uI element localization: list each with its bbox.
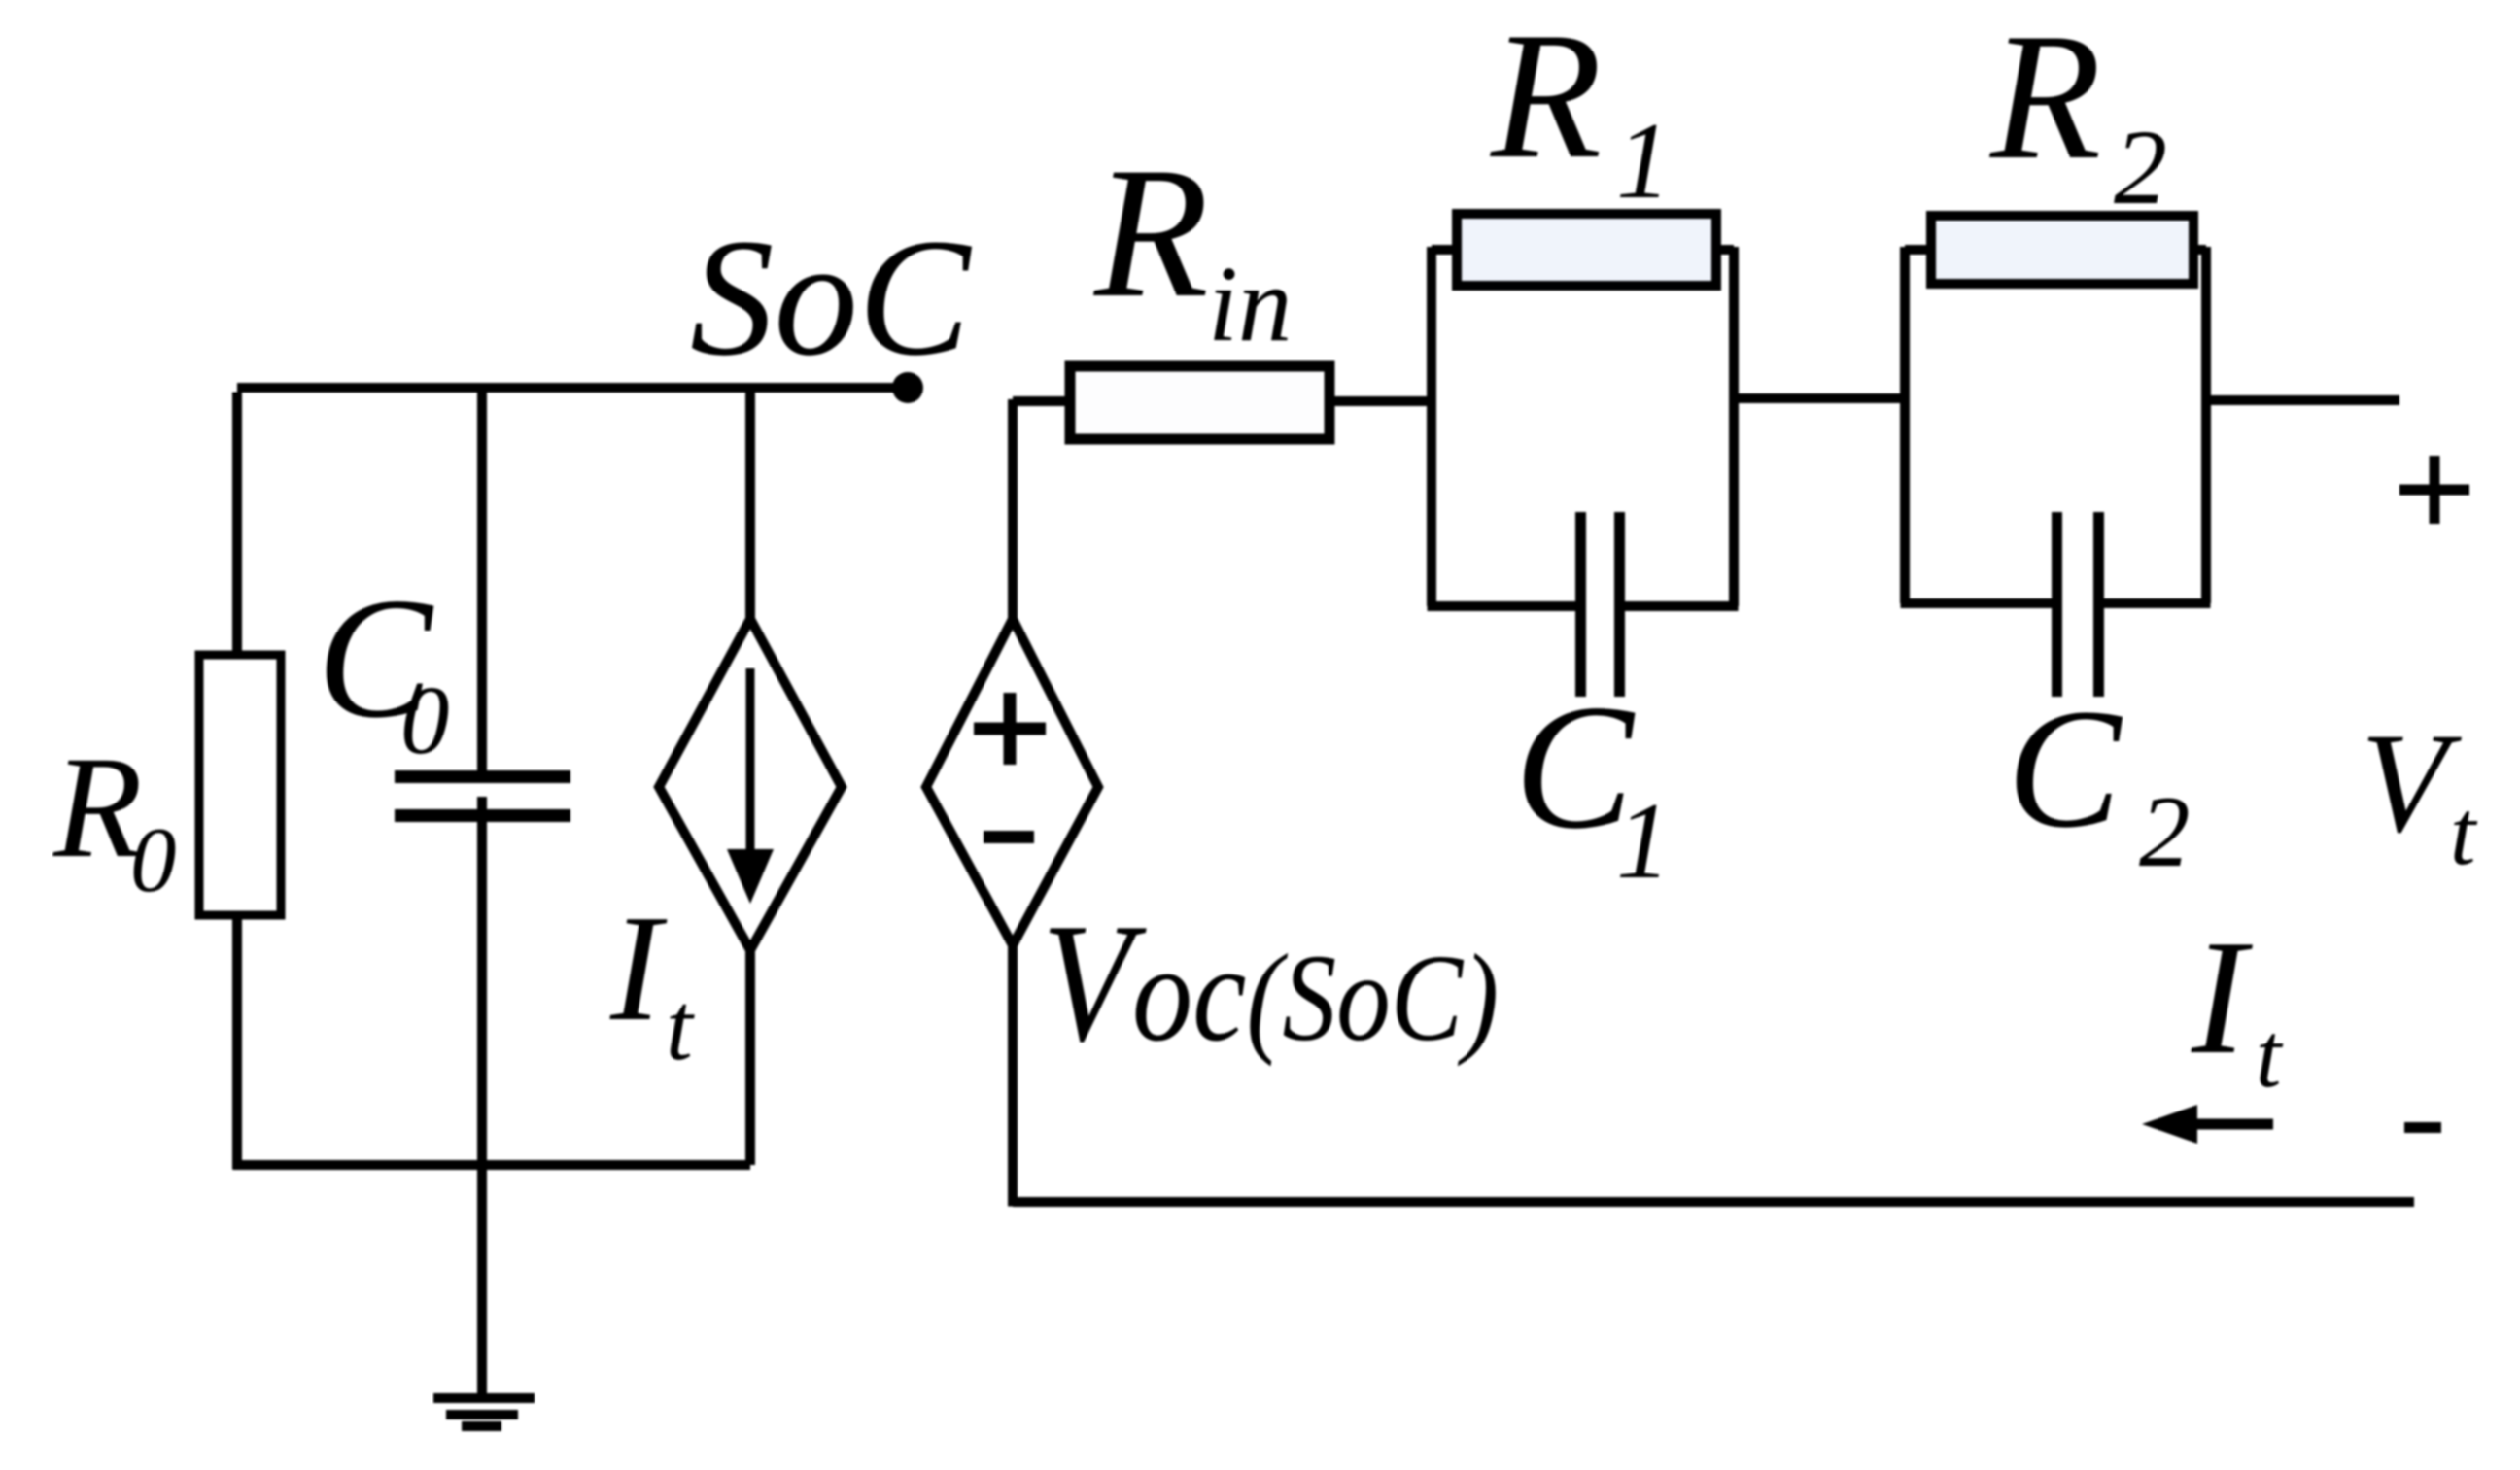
svg-text:2: 2 xyxy=(2114,108,2167,226)
svg-text:t: t xyxy=(2450,781,2478,884)
svg-text:R: R xyxy=(1490,0,1602,196)
svg-text:R: R xyxy=(52,727,143,888)
svg-text:V: V xyxy=(2361,703,2462,862)
svg-text:t: t xyxy=(2256,1004,2284,1107)
svg-text:2: 2 xyxy=(2139,774,2191,888)
svg-text:R: R xyxy=(1989,0,2101,197)
svg-text:t: t xyxy=(666,973,695,1080)
svg-text:Voc(SoC): Voc(SoC) xyxy=(1042,889,1499,1077)
svg-text:0: 0 xyxy=(400,666,450,774)
svg-text:1: 1 xyxy=(1616,781,1671,902)
svg-text:C: C xyxy=(2007,674,2123,864)
svg-text:R: R xyxy=(1092,128,1209,336)
svg-text:I: I xyxy=(2191,906,2253,1088)
svg-text:in: in xyxy=(1208,245,1292,364)
svg-text:SoC: SoC xyxy=(690,205,972,391)
svg-text:I: I xyxy=(609,883,668,1052)
svg-text:0: 0 xyxy=(130,808,177,911)
svg-text:1: 1 xyxy=(1616,101,1671,222)
